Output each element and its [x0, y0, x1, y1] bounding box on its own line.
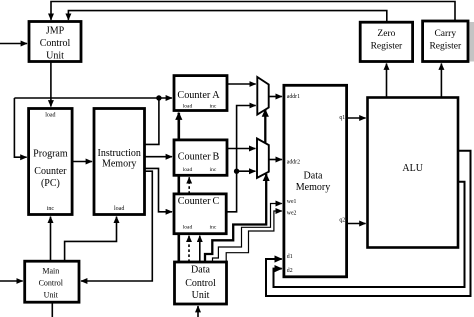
counter A	[174, 76, 227, 111]
wire: carry chain Counter C to Counter B	[178, 175, 181, 194]
counter B	[174, 140, 227, 175]
jmp-control-unit U-JMP	[29, 22, 81, 62]
svg-text:load: load	[183, 167, 193, 173]
wire: carry chain Counter B to Counter A	[178, 113, 181, 140]
svg-text:Control: Control	[39, 278, 64, 287]
wire: select staircase from Data Control Unit to mux2 (thick)	[205, 174, 266, 262]
zero-register REG-Z	[360, 22, 412, 61]
svg-text:q1: q1	[339, 115, 345, 121]
svg-text:Unit: Unit	[44, 291, 59, 300]
wire: ALU to Zero Register	[386, 64, 388, 98]
svg-text:Unit: Unit	[192, 290, 210, 301]
wire: Counter A output to mux1	[227, 83, 256, 85]
data-control-unit U-DATA	[175, 262, 227, 304]
wire: instruction field net to PC / Counter A (with junction)	[14, 98, 172, 157]
svg-text:load: load	[45, 113, 55, 119]
wire: Counter B output to mux2	[227, 148, 255, 150]
program-counter PC	[29, 109, 73, 215]
main-control-unit U-MAIN	[25, 261, 79, 302]
svg-text:Control: Control	[185, 278, 216, 289]
svg-text:Control: Control	[40, 38, 71, 49]
svg-text:we1: we1	[287, 199, 297, 205]
wire: Data Control Unit to Counter C (thick)	[178, 234, 181, 262]
svg-text:load: load	[183, 104, 193, 110]
svg-text:load: load	[183, 225, 193, 231]
instruction-memory IM	[94, 109, 145, 215]
wire: JMP Control Unit to Program Counter load	[50, 62, 52, 107]
wire: input from left edge into Main Control Unit	[0, 280, 23, 282]
svg-text:d2: d2	[287, 268, 293, 274]
svg-text:Program: Program	[33, 149, 68, 160]
svg-text:load: load	[114, 206, 124, 212]
svg-text:Instruction: Instruction	[98, 148, 141, 159]
svg-text:JMP: JMP	[46, 26, 65, 37]
svg-text:Carry: Carry	[434, 29, 456, 39]
svg-text:Counter: Counter	[34, 166, 67, 177]
svg-text:CounterB: CounterB	[178, 152, 220, 163]
wire: mux2 output to Data Memory addr2	[269, 159, 282, 161]
wire: Main Control Unit to Instruction Memory load	[65, 217, 117, 262]
alu U-ALU	[368, 98, 459, 248]
wire: Counter C output to mux1 and mux2 (with junction)	[226, 106, 256, 212]
wire: select line between mux2 and mux1	[264, 110, 266, 144]
wire: dashed control line Counter C to Counter B	[188, 177, 190, 194]
wire: Instruction Memory to Counter B input	[145, 156, 173, 158]
wire: Instruction Memory to Main Control Unit right input	[81, 171, 152, 281]
wire: Carry Register output to JMP Control Unit (along top edge)	[51, 2, 455, 22]
wire: ALU to Carry Register	[440, 64, 442, 98]
svg-text:addr1: addr1	[287, 94, 300, 100]
wire: control line Data Control Unit to Counter C	[199, 236, 201, 262]
svg-text:inc: inc	[210, 167, 217, 173]
svg-text:Memory: Memory	[296, 182, 330, 193]
svg-text:addr2: addr2	[287, 159, 300, 165]
svg-text:(PC): (PC)	[41, 178, 60, 189]
svg-text:ALU: ALU	[402, 163, 423, 174]
wire: Program Counter to Instruction Memory	[72, 161, 92, 163]
mux M1	[257, 77, 268, 115]
wire: dashed control line Data Control Unit to Counter C	[188, 236, 190, 262]
wire: input from left edge into JMP Control Unit	[0, 43, 27, 45]
svg-text:CounterC: CounterC	[178, 196, 220, 207]
node: junction dot on Counter C output	[234, 169, 239, 174]
svg-text:q2: q2	[339, 218, 345, 224]
wire: Zero Register output to JMP Control Unit	[68, 11, 386, 23]
svg-text:d1: d1	[287, 254, 293, 260]
wire: we2 staircase from Data Control Unit to Data Memory	[226, 211, 282, 262]
svg-text:Unit: Unit	[46, 51, 64, 62]
node: junction dot at instruction net	[156, 95, 161, 100]
svg-text:Memory: Memory	[102, 159, 136, 170]
wire: Instruction Memory to Counter C input	[145, 168, 173, 211]
svg-text:Data: Data	[304, 170, 323, 181]
svg-text:Main: Main	[42, 266, 59, 275]
wire: Data Memory q2 to ALU	[347, 223, 366, 225]
wire: input from bottom edge into Data Control Unit	[197, 306, 199, 317]
counter C	[174, 194, 226, 234]
svg-text:Register: Register	[429, 42, 461, 52]
carry-register REG-C	[423, 21, 468, 62]
svg-text:CounterA: CounterA	[177, 90, 220, 101]
wire: ALU result loop to Data Memory d2	[274, 182, 465, 287]
svg-text:Data: Data	[191, 264, 210, 275]
svg-text:Register: Register	[371, 42, 403, 52]
svg-text:we2: we2	[287, 211, 297, 217]
mux M2	[257, 139, 269, 178]
svg-text:inc: inc	[210, 104, 217, 110]
wire: ALU result loop to Data Memory d1	[266, 151, 471, 296]
svg-text:inc: inc	[47, 206, 55, 212]
wire: Main Control Unit bottom output (off page)	[51, 302, 53, 317]
wire: Main Control Unit to PC inc	[50, 217, 52, 262]
wire: mux1 output to Data Memory addr1	[269, 96, 282, 98]
svg-text:Zero: Zero	[377, 29, 395, 39]
svg-text:inc: inc	[210, 225, 217, 231]
shadow artifact at right of Carry Register	[470, 22, 474, 62]
data-memory DM	[284, 85, 347, 276]
wire: we1 staircase from Data Control Unit to Data Memory	[213, 204, 282, 263]
wire: Data Memory q1 to ALU	[347, 117, 366, 119]
